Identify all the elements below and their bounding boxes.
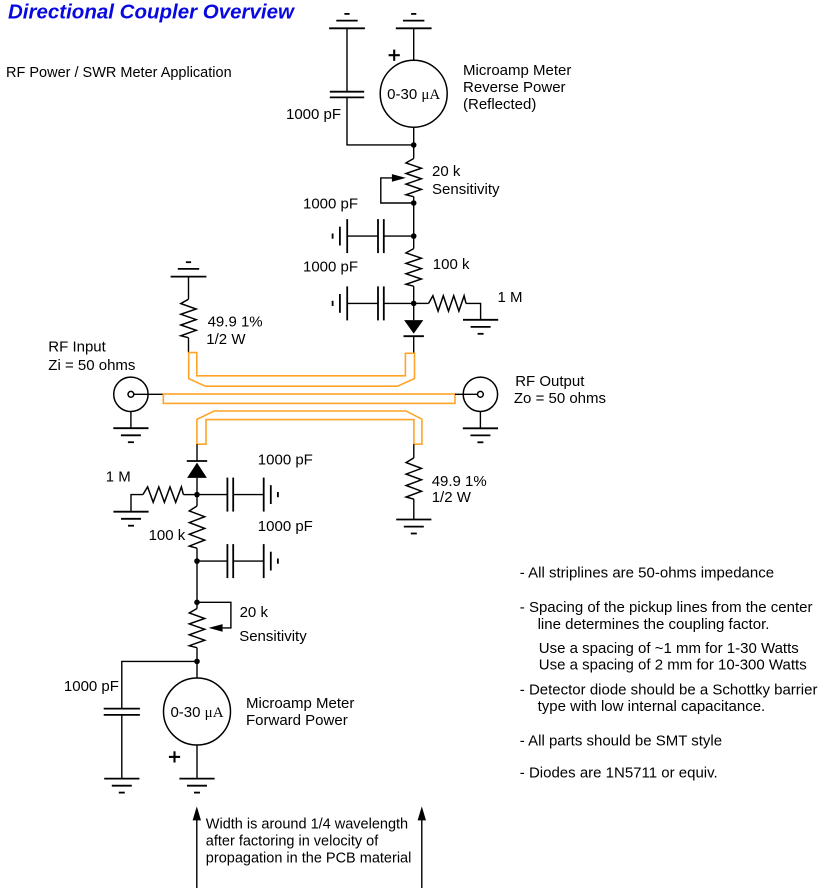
svg-text:- Spacing of the pickup lines: - Spacing of the pickup lines from the c… (520, 599, 813, 616)
wire N2 to node N3 (413, 203, 415, 236)
ground G9 (below R6) (113, 512, 148, 526)
wire G1 to C1 (346, 28, 348, 91)
wire R1 to node N2 (413, 197, 415, 203)
resistor R3 1 M (429, 296, 466, 311)
svg-text:- Detector diode should be a S: - Detector diode should be a Schottky ba… (520, 682, 818, 699)
upper pickup stripline (reflected port) (189, 353, 415, 387)
R1 wiper arm with arrow (381, 178, 414, 203)
svg-text:1000 pF: 1000 pF (258, 518, 313, 535)
node N6 junction dot (194, 558, 200, 564)
wire C6 to ground G13 (121, 715, 123, 779)
wire M2 to ground G14 (196, 745, 198, 779)
svg-text:1/2 W: 1/2 W (206, 331, 246, 348)
svg-text:Forward Power: Forward Power (246, 712, 348, 729)
width dimension arrow (right) (418, 806, 426, 888)
node N8 junction dot (194, 659, 200, 665)
svg-text:after factoring in velocity of: after factoring in velocity of (206, 834, 379, 850)
wire C1 to node N1 (347, 97, 414, 144)
node N5 junction dot (194, 492, 200, 498)
connector J1 RF Input (114, 377, 148, 411)
wire G4 to C3 (347, 302, 378, 304)
wire D1 to upper pickup line (413, 336, 415, 353)
ground G4 (left of C3) (333, 286, 348, 320)
wire R5 to ground G12 (413, 499, 415, 519)
svg-text:1000 pF: 1000 pF (258, 451, 313, 468)
wire R4 to upper pickup line (188, 338, 190, 353)
svg-text:49.9 1%: 49.9 1% (432, 473, 487, 490)
svg-text:propagation in the PCB materia: propagation in the PCB material (206, 851, 412, 867)
svg-text:1000 pF: 1000 pF (303, 196, 358, 213)
wire N4 to diode D1 (413, 303, 415, 320)
microamp meter M1 (0-30 uA, Reverse Power) (380, 60, 447, 127)
ground G11 (right of C5) (264, 544, 278, 578)
wire G2 to M1 (413, 28, 415, 60)
capacitor C5 1000 pF (227, 544, 233, 578)
wire N6 to node N7 (196, 561, 198, 602)
svg-text:1000 pF: 1000 pF (303, 259, 358, 276)
svg-text:Directional Coupler Overview: Directional Coupler Overview (8, 1, 296, 24)
capacitor C2 1000 pF (378, 219, 384, 253)
wire N5 to R6 (183, 494, 197, 496)
ground G2 (top, above meter M1) (396, 14, 432, 28)
wire R3 to ground G5 (466, 303, 481, 319)
ground G3 (left of C2) (333, 219, 348, 253)
svg-text:Microamp Meter: Microamp Meter (246, 695, 354, 712)
capacitor C4 1000 pF (227, 478, 233, 512)
svg-text:Sensitivity: Sensitivity (239, 628, 307, 645)
wire C2 to node N3 (384, 235, 414, 237)
wire N8 to meter M2 (196, 661, 198, 678)
ground G12 (below R5) (396, 520, 431, 534)
svg-text:Use a spacing of ~1 mm for 1-3: Use a spacing of ~1 mm for 1-30 Watts (539, 640, 799, 657)
svg-text:Reverse Power: Reverse Power (463, 79, 566, 96)
width note text (206, 817, 412, 867)
potentiometer R1 20 k body (406, 159, 421, 197)
svg-text:Width is around 1/4 wavelength: Width is around 1/4 wavelength (206, 817, 408, 833)
svg-text:1000 pF: 1000 pF (64, 678, 119, 695)
node N1 junction dot (411, 142, 417, 148)
wire N6 to C5 (197, 560, 227, 562)
wire C5 to ground G11 (233, 560, 264, 562)
svg-text:type with low internal capacit: type with low internal capacitance. (538, 698, 766, 715)
wire N8 to C6 (122, 661, 197, 708)
resistor R4 49.9 1% 1/2 W (181, 299, 196, 338)
wire J1 to main stripline (134, 393, 164, 395)
svg-text:20 k: 20 k (240, 604, 269, 621)
svg-text:Zi = 50 ohms: Zi = 50 ohms (48, 357, 135, 374)
plus polarity mark for M1 (389, 50, 400, 61)
wire N3 to R2 (413, 236, 415, 249)
ground G13 (below C6) (104, 779, 139, 793)
svg-text:0-30 μA: 0-30 μA (387, 86, 440, 103)
svg-text:RF Power / SWR Meter Applicati: RF Power / SWR Meter Application (6, 65, 232, 81)
wire J1 to ground G7 (130, 412, 132, 429)
ground G14 (below M2) (179, 779, 214, 793)
ground G1 (top, above 1000pF cap C1) (329, 14, 365, 28)
wire J2 to ground G8 (479, 412, 481, 429)
svg-text:1000 pF: 1000 pF (286, 106, 341, 123)
node N7 junction dot (194, 600, 200, 606)
svg-text:Zo = 50 ohms: Zo = 50 ohms (514, 390, 606, 407)
resistor R6 1 M (143, 487, 184, 502)
connector J2 RF Output (463, 377, 497, 411)
diode D1 (detector, pointing down) (404, 320, 424, 336)
svg-text:Use a spacing of 2 mm for 10-3: Use a spacing of 2 mm for 10-300 Watts (539, 657, 807, 674)
svg-text:1 M: 1 M (106, 468, 131, 485)
R8 wiper arm with arrow (197, 602, 231, 628)
ground G7 (below J1) (113, 428, 148, 442)
capacitor C1 1000 pF (330, 92, 364, 98)
svg-text:- All parts should be SMT styl: - All parts should be SMT style (520, 733, 722, 750)
node N4 junction dot (411, 301, 417, 307)
ground G8 (below J2) (463, 428, 498, 442)
potentiometer R8 20 k body (189, 609, 204, 648)
wire N7 to R8 (196, 602, 198, 608)
wire D2 to node N5 (196, 478, 198, 495)
wire R8 to node N8 (196, 648, 198, 662)
lower pickup stripline (forward port) (197, 411, 422, 444)
wire lower pickup to diode D2 (196, 444, 198, 461)
capacitor C6 1000 pF (104, 709, 140, 715)
svg-text:100 k: 100 k (433, 256, 470, 273)
resistor R5 49.9 1% 1/2 W (406, 458, 421, 499)
svg-text:RF Output: RF Output (515, 373, 585, 390)
svg-text:20 k: 20 k (432, 163, 461, 180)
wire C4 to ground G10 (233, 494, 264, 496)
wire N1 to R1 (413, 145, 415, 159)
wire main stripline to J2 (455, 393, 478, 395)
wire M1 bottom to node N1 (413, 127, 415, 145)
wire N5 to R7 (196, 495, 198, 506)
svg-text:(Reflected): (Reflected) (463, 96, 536, 113)
label RF Output (514, 373, 606, 407)
ground G6 (above R4) (171, 262, 207, 276)
wire N5 to C4 (197, 494, 227, 496)
wire R6 to ground G9 (131, 495, 143, 512)
svg-text:- Diodes are 1N5711 or equiv.: - Diodes are 1N5711 or equiv. (520, 765, 718, 782)
width dimension arrow (left) (193, 806, 201, 888)
ground G5 (below R3) (463, 320, 498, 334)
capacitor C3 1000 pF (378, 286, 384, 320)
svg-text:49.9 1%: 49.9 1% (208, 314, 263, 331)
wire C3 to node N4 (384, 302, 414, 304)
node N3 junction dot (411, 233, 417, 239)
resistor R2 100 k (406, 249, 421, 287)
svg-text:1 M: 1 M (498, 289, 523, 306)
svg-text:- All striplines are 50-ohms i: - All striplines are 50-ohms impedance (520, 565, 774, 582)
wire R7 to node N6 (196, 548, 198, 561)
svg-text:100 k: 100 k (149, 527, 186, 544)
label R4 value (206, 314, 262, 349)
ground G10 (right of C4) (264, 478, 278, 512)
svg-text:0-30 μA: 0-30 μA (170, 704, 223, 721)
main stripline (center trace) (163, 394, 455, 403)
wire G6 to R4 (188, 277, 190, 300)
wire N4 to R3 (414, 302, 429, 304)
wire lower pickup to R5 (413, 444, 415, 458)
svg-text:RF Input: RF Input (48, 339, 106, 356)
plus polarity mark for M2 (169, 751, 180, 762)
microamp meter M2 (0-30 uA, Forward Power) (164, 678, 231, 745)
label M2 (246, 695, 354, 729)
label M1 (463, 62, 571, 113)
svg-text:Microamp Meter: Microamp Meter (463, 62, 571, 79)
svg-text:line determines the coupling f: line determines the coupling factor. (538, 616, 770, 633)
diode D2 (detector, pointing up) (187, 461, 207, 478)
svg-text:Sensitivity: Sensitivity (432, 181, 500, 198)
resistor R7 100 k (189, 506, 204, 548)
svg-text:1/2 W: 1/2 W (432, 489, 472, 506)
node N2 junction dot (411, 200, 417, 206)
wire G3 to C2 (347, 235, 378, 237)
notes text block (520, 565, 818, 782)
label RF Input (48, 339, 135, 374)
label R5 value (432, 473, 487, 506)
wire R2 to node N4 (413, 286, 415, 303)
